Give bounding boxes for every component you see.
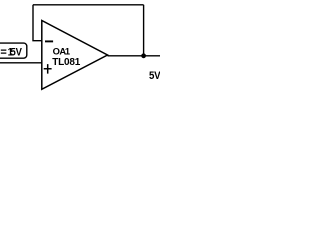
wire feedback right vertical to output node xyxy=(143,5,145,56)
svg-text:=: = xyxy=(0,47,6,59)
op-amp non-inverting input plus symbol xyxy=(44,64,52,74)
wire output xyxy=(108,55,161,57)
op-amp OA1 triangle xyxy=(42,21,108,90)
svg-text:5V: 5V xyxy=(149,70,160,82)
wire non-inverting input xyxy=(0,62,42,64)
wire feedback left vertical with jog to inverting input xyxy=(33,5,42,41)
svg-text:15V: 15V xyxy=(8,47,22,59)
svg-text:TL081: TL081 xyxy=(52,57,81,68)
svg-text:OA1: OA1 xyxy=(53,45,71,56)
voltage source box = 15V (cut off at left edge) xyxy=(0,43,27,58)
wire feedback top horizontal xyxy=(33,4,144,6)
node output junction xyxy=(141,53,146,58)
op-amp inverting input minus symbol xyxy=(45,40,53,42)
